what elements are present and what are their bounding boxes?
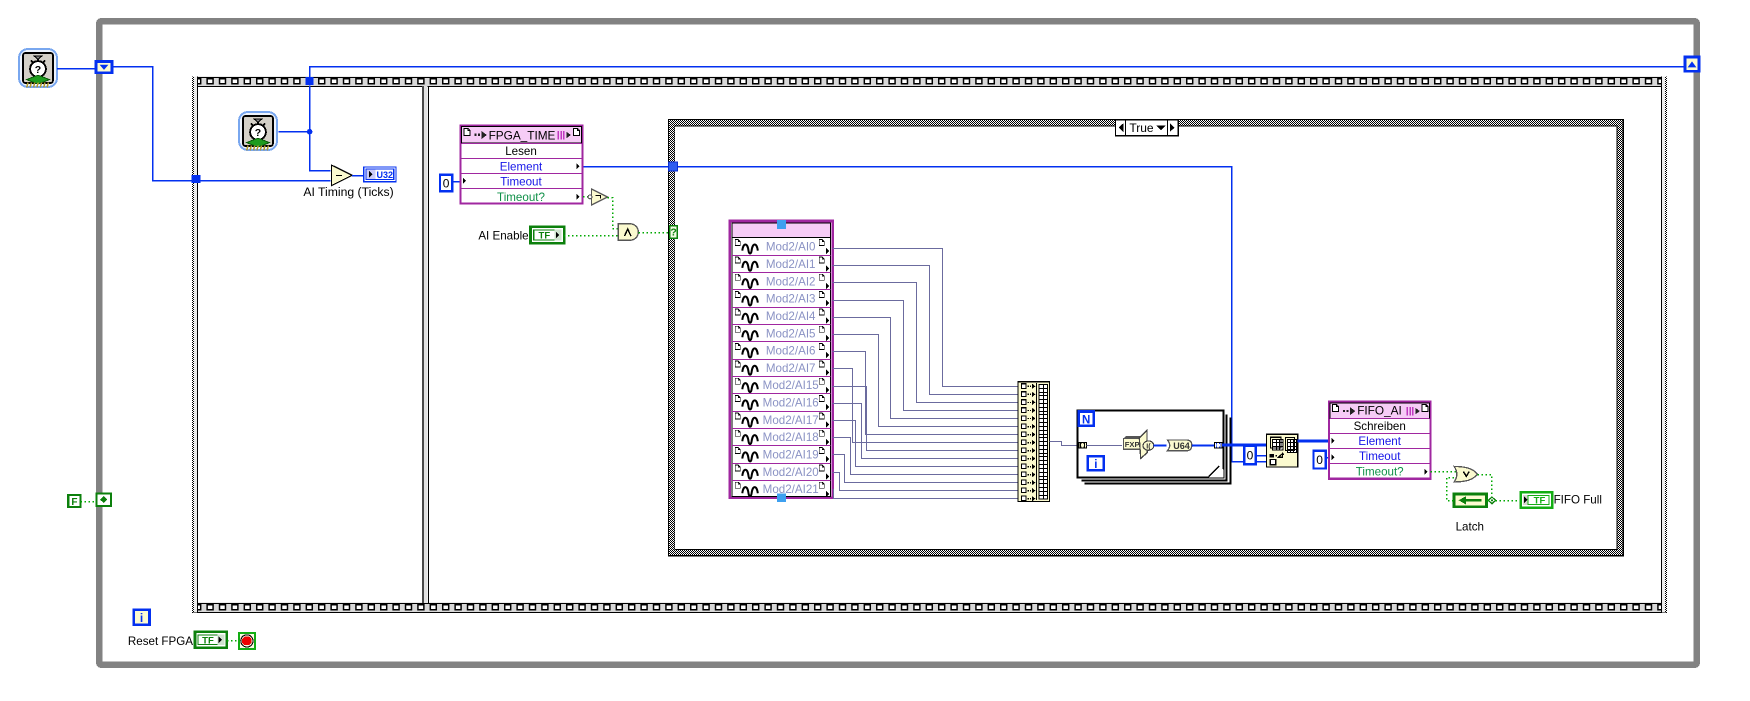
svg-text:i: i xyxy=(140,611,143,625)
wire: tunnel to FXP convert xyxy=(1086,445,1122,447)
label AI Enable xyxy=(478,229,528,242)
wire: U64 to right tunnel xyxy=(1192,445,1214,447)
svg-text:U64: U64 xyxy=(1173,441,1190,451)
IO node top tunnel xyxy=(777,220,786,229)
svg-text:Mod2/AI7: Mod2/AI7 xyxy=(766,362,816,375)
svg-text:Element: Element xyxy=(500,160,543,173)
feedback node (latch) xyxy=(1454,494,1487,507)
wire: Reset FPGA to conditional terminal xyxy=(227,640,239,642)
wire: tick count to junction and subtract xyxy=(279,86,331,171)
build array node xyxy=(1018,382,1050,502)
svg-text:0: 0 xyxy=(443,176,450,190)
svg-text:Mod2/AI18: Mod2/AI18 xyxy=(763,431,819,444)
case selector terminal ? xyxy=(670,226,677,239)
for loop left tunnel xyxy=(1079,442,1087,448)
wire: tunnel up and across to right shift register xyxy=(310,67,1686,78)
svg-text:Timeout?: Timeout? xyxy=(1356,465,1404,478)
FIFO method node FIFO_AI xyxy=(1329,402,1430,479)
AND gate xyxy=(618,224,638,240)
IO node bottom tunnel xyxy=(777,493,786,502)
svg-text:Mod2/AI20: Mod2/AI20 xyxy=(763,466,819,479)
svg-text:Mod2/AI4: Mod2/AI4 xyxy=(766,310,816,323)
subtract node xyxy=(331,165,352,186)
Reset FPGA boolean control xyxy=(195,632,227,648)
label Latch xyxy=(1456,521,1484,534)
wire: AND to case selector xyxy=(639,232,669,234)
wire: feedback node back to OR input xyxy=(1447,478,1489,501)
svg-text:?: ? xyxy=(35,64,41,76)
svg-text:FIFO_AI: FIFO_AI xyxy=(1357,404,1402,418)
for loop i terminal xyxy=(1088,456,1104,471)
svg-text:0: 0 xyxy=(1247,448,1254,462)
wire: NOT to AND xyxy=(608,198,619,229)
wire: replace node to FIFO_AI Element xyxy=(1298,439,1329,442)
Tick Count VI icon (frame 1) xyxy=(239,112,277,150)
false constant F xyxy=(68,495,80,508)
wire: Element u64 across case into replace-array-subset xyxy=(584,167,1267,462)
wire: junction to FIFO Full indicator xyxy=(1495,500,1520,502)
svg-text:Mod2/AI1: Mod2/AI1 xyxy=(766,258,816,271)
replace array subset node xyxy=(1266,434,1297,467)
svg-text:N: N xyxy=(1082,415,1090,427)
svg-text:Mod2/AI21: Mod2/AI21 xyxy=(763,483,819,496)
svg-text:Timeout: Timeout xyxy=(500,176,542,189)
svg-text:Mod2/AI17: Mod2/AI17 xyxy=(763,414,819,427)
feedback junction diamond xyxy=(1488,497,1495,504)
wire: subtract to U32 indicator xyxy=(352,175,364,177)
while loop conditional terminal (stop) xyxy=(239,633,255,649)
svg-text:Mod2/AI3: Mod2/AI3 xyxy=(766,293,816,306)
svg-text:Timeout?: Timeout? xyxy=(497,191,545,204)
svg-text:Mod2/AI5: Mod2/AI5 xyxy=(766,327,816,340)
constant 0 (replace index) xyxy=(1244,446,1256,465)
svg-text:U32: U32 xyxy=(377,170,394,180)
flat sequence frame divider xyxy=(422,86,429,603)
svg-text:Mod2/AI2: Mod2/AI2 xyxy=(766,275,816,288)
label AI Timing (Ticks) xyxy=(303,185,393,199)
svg-text:TF: TF xyxy=(1534,496,1546,507)
wire: AI Enable to AND xyxy=(564,235,618,237)
svg-text:Mod2/AI0: Mod2/AI0 xyxy=(766,241,816,254)
svg-text:Reset FPGA: Reset FPGA xyxy=(128,635,193,648)
wire: 0 to FIFO_AI Timeout xyxy=(1326,457,1331,459)
wire: u64 array to replace array subset xyxy=(1222,443,1266,446)
NOT gate xyxy=(583,189,608,205)
tunnel on sequence left border xyxy=(192,175,201,183)
tunnel on sequence top border xyxy=(306,77,314,85)
wire: Timeout? to OR gate xyxy=(1431,471,1456,473)
case structure border xyxy=(668,119,1623,555)
svg-text:Timeout: Timeout xyxy=(1359,450,1401,463)
right shift register (up arrow) xyxy=(1685,57,1699,71)
wires: IO outputs to build array xyxy=(833,249,1019,499)
wire: OR output loop to junction xyxy=(1478,475,1492,498)
svg-text:Mod2/AI6: Mod2/AI6 xyxy=(766,345,816,358)
constant 0 (FPGA_TIME timeout) xyxy=(440,175,452,192)
AI Enable boolean control xyxy=(531,227,565,243)
case selector label True xyxy=(1116,120,1179,136)
wire: 0 to replace node xyxy=(1256,455,1267,457)
wire: build array to for loop xyxy=(1050,442,1079,446)
svg-text:?: ? xyxy=(670,227,676,239)
svg-text:AI Enable: AI Enable xyxy=(478,229,528,242)
svg-text:FXP: FXP xyxy=(1125,440,1140,449)
svg-text:FIFO Full: FIFO Full xyxy=(1554,493,1602,506)
label FIFO Full xyxy=(1554,493,1602,506)
loop tunnel (diamond) xyxy=(97,493,112,506)
wire: FXP to U64 xyxy=(1154,445,1167,447)
svg-text:TF: TF xyxy=(202,635,214,646)
svg-text:FPGA_TIME: FPGA_TIME xyxy=(489,129,556,143)
for loop right tunnel xyxy=(1214,442,1222,448)
svg-text:TF: TF xyxy=(539,231,551,242)
U64 coercion tag xyxy=(1167,440,1191,451)
svg-text:0: 0 xyxy=(1316,453,1323,467)
left shift register (down arrow) xyxy=(96,62,112,73)
FIFO Full boolean indicator xyxy=(1521,492,1553,507)
svg-text:True: True xyxy=(1129,121,1154,135)
svg-text:Mod2/AI15: Mod2/AI15 xyxy=(763,379,819,392)
AI Timing (Ticks) U32 indicator xyxy=(364,167,396,182)
for loop (stacked frames) xyxy=(1078,411,1231,484)
svg-text:F: F xyxy=(71,497,77,508)
svg-text:?: ? xyxy=(255,127,261,139)
svg-text:Element: Element xyxy=(1358,435,1401,448)
svg-text:Mod2/AI16: Mod2/AI16 xyxy=(763,397,819,410)
constant 0 (FIFO_AI timeout) xyxy=(1314,451,1326,469)
svg-text:Latch: Latch xyxy=(1456,521,1484,534)
FPGA IO node Mod2/AI0..AI21 xyxy=(730,221,833,498)
svg-text:I(: I( xyxy=(1146,441,1151,450)
svg-text:i: i xyxy=(1094,459,1097,471)
FIFO method node FPGA_TIME xyxy=(461,126,583,204)
wire: tick count to left shift register xyxy=(57,68,96,70)
while loop iteration terminal i xyxy=(134,610,150,626)
svg-text:Lesen: Lesen xyxy=(505,145,537,158)
wire: 0 to FPGA_TIME Timeout input xyxy=(452,181,462,183)
flat sequence structure border xyxy=(192,77,1667,613)
wire: F to loop tunnel xyxy=(81,501,97,503)
OR gate xyxy=(1454,466,1477,482)
wire: shift register into sequence frame 1 xyxy=(113,67,331,181)
svg-text:AI Timing (Ticks): AI Timing (Ticks) xyxy=(303,185,393,199)
svg-text:Mod2/AI19: Mod2/AI19 xyxy=(763,449,819,462)
label Reset FPGA xyxy=(128,635,193,648)
Tick Count VI icon (outside loop) xyxy=(19,49,57,87)
tunnel on case left border (element wire) xyxy=(669,162,678,171)
svg-text:Schreiben: Schreiben xyxy=(1354,420,1406,433)
FXP to integer conversion xyxy=(1123,430,1153,458)
for loop N terminal xyxy=(1079,412,1094,427)
